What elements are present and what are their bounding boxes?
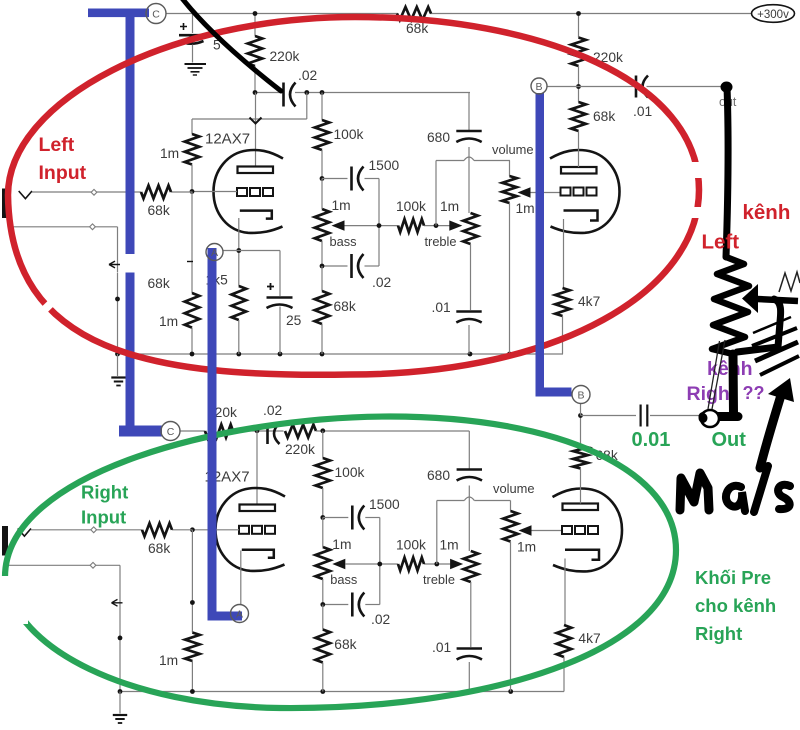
whiteout red dash gap 1 — [684, 162, 710, 178]
resistor 4k7 (cathode V2b) — [557, 559, 601, 692]
svg-text:12AX7: 12AX7 — [205, 131, 250, 148]
node junction gnd a — [190, 352, 195, 357]
triode V1b cathode — [564, 211, 598, 221]
resistor 1m (upper, V1a grid-plate) — [160, 119, 199, 192]
wire +300v supply rail (left channel) — [166, 13, 752, 15]
potentiometer treble 1m right — [464, 551, 479, 647]
capacitor 680 (bright right) — [427, 431, 482, 551]
node junction gnd e — [468, 352, 473, 357]
svg-text:bass: bass — [330, 234, 357, 249]
svg-text:Khối Pre: Khối Pre — [695, 567, 771, 588]
wire cathode row to cap 25 — [223, 250, 280, 252]
svg-text:220k: 220k — [285, 442, 315, 457]
triode V2a cathode — [242, 550, 274, 558]
marker hatch strokes — [752, 317, 799, 375]
node junction (1500 tap) — [320, 176, 325, 181]
triode V2a grid — [239, 526, 275, 534]
wire hop row right — [437, 497, 511, 501]
capacitor .01 (right ch) — [432, 640, 482, 692]
triode V1b envelope — [550, 150, 620, 233]
svg-text:Input: Input — [81, 507, 126, 528]
svg-text:C: C — [152, 8, 160, 20]
whiteout red dash gap 2 — [688, 207, 712, 218]
node junction bass/.02 right — [320, 602, 325, 607]
marker wiper arrow — [742, 284, 798, 313]
svg-text:A: A — [211, 247, 218, 259]
label 12AX7 V1a — [205, 131, 250, 148]
resistor 4k7 (cathode V1b) — [555, 219, 600, 354]
wire grid lead V2a — [192, 529, 239, 531]
node A (left ch) — [206, 244, 223, 261]
svg-text:+300v: +300v — [757, 9, 789, 21]
node junction (grid V1a) — [190, 189, 195, 194]
wire hop row (treble top) — [436, 157, 510, 161]
wire shield drop x120 — [119, 565, 121, 691]
svg-text:bass: bass — [330, 572, 357, 587]
svg-text:??: ?? — [743, 383, 765, 403]
wire cathode lead V1a — [238, 218, 240, 286]
svg-text:treble: treble — [423, 572, 455, 587]
marker handwriting Mass — [680, 466, 790, 512]
capacitor .02 (bass cap right) — [323, 593, 390, 628]
svg-text:.02: .02 — [371, 612, 390, 627]
ground (filter cap) — [185, 64, 207, 75]
wire B2 drop — [580, 404, 582, 416]
jack Right input tip contact — [18, 529, 31, 537]
svg-text:1m: 1m — [440, 199, 459, 214]
svg-text:68k: 68k — [148, 276, 170, 291]
svg-text:cho kênh: cho kênh — [695, 595, 776, 616]
capacitor .01 (output, left ch) — [633, 76, 652, 120]
pen wiper lines — [708, 340, 725, 409]
svg-text:1m: 1m — [516, 201, 535, 216]
wire plate row right — [316, 430, 469, 432]
wire wiper row — [345, 225, 450, 227]
capacitor .02 (coupling V1a) — [284, 68, 318, 107]
svg-text:1m: 1m — [160, 146, 179, 161]
label treble — [425, 234, 457, 249]
whiteout red slash bottom-left — [42, 285, 70, 312]
resistor 68k (V2b plate stopper) — [573, 416, 618, 504]
capacitor .01 (left ch) — [432, 300, 482, 354]
label 68k (erased resistor) — [148, 276, 170, 291]
resistor 100k (mid) — [396, 199, 426, 232]
resistor 220k (plate load V1b) — [571, 14, 623, 87]
svg-text:100k: 100k — [396, 538, 426, 553]
svg-text:C: C — [167, 426, 175, 438]
marker pot right bracket — [703, 354, 738, 417]
wire gnd stub right ch — [119, 692, 121, 714]
wire 1500 drop right — [379, 518, 381, 605]
node junction gnd left end right ch — [118, 689, 123, 694]
svg-text:680: 680 — [427, 130, 450, 145]
triode V1a plate — [238, 167, 274, 174]
text 0.01 (green) — [632, 429, 671, 451]
svg-text:volume: volume — [493, 481, 535, 496]
node junction (rail/220k) — [253, 11, 258, 16]
whiteout right ch labels — [136, 591, 181, 623]
ground (left channel) — [111, 378, 125, 386]
svg-text:kênh: kênh — [743, 201, 791, 224]
node junction wiper/treble-link — [434, 223, 439, 228]
svg-text:B: B — [577, 389, 584, 401]
svg-text:68k: 68k — [148, 541, 170, 556]
wire plate row V1a — [255, 92, 470, 94]
resistor 68k (grid stopper, left) — [141, 186, 171, 219]
label 1m treble — [440, 199, 459, 214]
node junction gnd b — [236, 352, 241, 357]
svg-text:1500: 1500 — [369, 158, 400, 173]
capacitor 680 (bright) — [427, 93, 482, 214]
node junction x117 — [115, 297, 120, 302]
triode V1a cathode — [240, 211, 272, 219]
node C (left ch) — [146, 4, 166, 24]
node junction rail/220k V1b — [576, 11, 581, 16]
svg-text:25: 25 — [286, 313, 302, 328]
triode V1b grid — [561, 188, 597, 196]
wire input row 2 (right ch) — [8, 556, 120, 566]
node junction wiper/1500 — [377, 223, 382, 228]
capacitor .02 (bass cap) — [322, 254, 391, 290]
capacitor .01 (output right) — [641, 405, 648, 427]
node junction B2 row — [578, 413, 583, 418]
connector diamond input 2 — [90, 224, 96, 230]
wire cathode lead V2a to node A — [240, 551, 242, 605]
triode V1b plate — [561, 167, 597, 174]
text kenh Right ?? (purple) — [687, 358, 765, 405]
node junction tone top right — [320, 428, 325, 433]
node A (right ch) — [231, 605, 249, 623]
svg-text:Input: Input — [39, 162, 87, 184]
power +300v — [752, 5, 795, 23]
wire ground bus (left ch) — [118, 353, 564, 355]
label out (left ch) — [719, 95, 737, 109]
wire volume wiper to grid V1b — [531, 192, 561, 194]
triode V2b grid — [562, 526, 598, 534]
node junction gnd r2 — [320, 689, 325, 694]
triode V2a plate — [240, 505, 276, 512]
svg-text:100k: 100k — [335, 465, 365, 480]
triode V2b plate — [563, 504, 599, 511]
svg-text:B: B — [535, 81, 542, 93]
wire B2 out row — [581, 415, 702, 417]
wire gnd stub (left ch) — [117, 354, 119, 376]
node junction gnd r4 — [508, 689, 513, 694]
svg-text:1m: 1m — [440, 538, 459, 553]
wire remnant x117 redraw — [109, 254, 193, 272]
node junction (.02 out) — [304, 90, 309, 95]
text Out (green) — [712, 429, 747, 451]
resistor 100k (slope, left ch) — [315, 93, 364, 179]
text kenh Left (red) — [702, 201, 791, 254]
marker wiper circle — [699, 410, 720, 427]
node junction gnd c — [278, 352, 283, 357]
node junction gnd f — [507, 352, 512, 357]
svg-text:Righ: Righ — [687, 383, 730, 405]
resistor 220k R_plate V1a — [248, 14, 300, 93]
connector diamond input 1 — [91, 189, 97, 195]
jack Left input tip contact — [19, 191, 32, 199]
node junction gnd d — [320, 352, 325, 357]
svg-text:68k: 68k — [334, 637, 356, 652]
node junction wiper/1500 right — [377, 562, 382, 567]
wiper arrow treble right — [450, 559, 463, 569]
whiteout erased wire (left ch) — [84, 254, 164, 273]
svg-text:.02: .02 — [298, 68, 317, 83]
connector diamond input 1 right — [91, 527, 97, 533]
wire 1m feedback link — [192, 93, 307, 120]
text Khoi Pre cho kenh Right (green) — [695, 567, 776, 644]
svg-text:Right: Right — [81, 482, 128, 503]
resistor 68k (tone stack lower) — [315, 266, 356, 354]
svg-text:68k: 68k — [148, 203, 170, 218]
marker line out drop — [726, 87, 728, 257]
wiper arrow volume — [518, 187, 531, 197]
resistor grid leak 1m (right) — [159, 530, 200, 692]
connector diamond input 2 right — [90, 562, 96, 568]
wiper arrow volume right — [519, 525, 532, 535]
wire remnant x120 redraw (right) — [112, 599, 123, 606]
svg-text:.01: .01 — [633, 104, 652, 119]
node junction gnd r1 — [190, 689, 195, 694]
pen squiggle W — [779, 272, 800, 292]
svg-text:68k: 68k — [334, 299, 356, 314]
node C (right ch) — [161, 422, 180, 441]
wire B row — [547, 86, 723, 88]
node B (left ch) — [531, 78, 547, 94]
svg-text:1m: 1m — [159, 653, 178, 668]
node junction x120 — [118, 636, 123, 641]
jack Right input sleeve — [2, 526, 8, 556]
capacitor 1500 (treble cap right) — [323, 497, 400, 530]
node junction (cathode row) — [236, 248, 241, 253]
triode V2b envelope — [553, 488, 623, 571]
node junction bass/.02 — [320, 264, 325, 269]
label 1m (grid leak left) — [159, 314, 178, 329]
wiper arrow bass — [332, 220, 345, 230]
triode V1a grid — [237, 188, 273, 196]
node junction (tone stack top) — [320, 90, 325, 95]
wire input row (left ch) — [32, 191, 192, 193]
jack Left input sleeve — [2, 189, 8, 219]
node B (right ch) — [572, 386, 590, 404]
svg-text:100k: 100k — [334, 127, 364, 142]
svg-text:1500: 1500 — [369, 497, 400, 512]
wire wiper row right — [345, 563, 450, 565]
wire plate lead V1a — [255, 93, 257, 167]
svg-text:1m: 1m — [332, 198, 351, 213]
wire ground bus (right ch) — [120, 691, 564, 693]
svg-text:1m: 1m — [159, 314, 178, 329]
capacitor 25 (cathode bypass) — [267, 251, 302, 355]
svg-text:treble: treble — [425, 234, 457, 249]
node junction plate right ch — [255, 428, 260, 433]
svg-text:Left: Left — [39, 134, 75, 156]
wire treble link vertical right — [436, 501, 438, 565]
marker big arrow to out — [760, 378, 794, 468]
wire plate lead V2a — [256, 431, 258, 505]
text Right Input (green) — [81, 482, 128, 528]
marker potentiometer zigzag — [712, 257, 749, 354]
wire grid lead V1a — [192, 191, 237, 193]
potentiometer volume 1m (left) — [492, 142, 535, 354]
svg-text:1m: 1m — [517, 540, 536, 555]
capacitor .02 (coupling right) — [263, 403, 282, 444]
svg-text:4k7: 4k7 — [578, 631, 600, 646]
node junction grid V2a — [190, 527, 195, 532]
svg-text:.02: .02 — [263, 403, 282, 418]
node junction 1500 tap right — [320, 515, 325, 520]
svg-text:Left: Left — [702, 231, 740, 254]
svg-text:220k: 220k — [270, 49, 300, 64]
annotation green ellipse (right channel) — [5, 417, 676, 709]
svg-text:68k: 68k — [593, 109, 615, 124]
wire volume wiper to grid V2b — [532, 530, 563, 532]
node junction erased row right — [190, 600, 195, 605]
node junction gnd left end — [115, 352, 120, 357]
capacitor 1500 (treble cap) — [322, 158, 400, 191]
resistor 68k (supply dropper, top rail) — [397, 7, 431, 36]
svg-text:100k: 100k — [396, 199, 426, 214]
resistor 1k5 (cathode V1a) — [206, 273, 247, 355]
wire 220k to .02 — [233, 430, 284, 432]
svg-text:680: 680 — [427, 468, 450, 483]
resistor 100k (mid right) — [396, 538, 426, 571]
svg-text:Right: Right — [695, 623, 742, 644]
potentiometer treble 1m — [463, 213, 478, 310]
svg-text:.01: .01 — [432, 640, 451, 655]
wire shield drop x117 — [117, 227, 119, 354]
potentiometer bass 1m right — [316, 518, 358, 605]
resistor 68k (V1b plate stopper) — [571, 87, 615, 168]
resistor 220k (first, right ch) — [205, 405, 237, 438]
ground (right channel) — [113, 715, 127, 723]
svg-text:A: A — [236, 608, 243, 620]
text Left Input (red) — [39, 134, 87, 184]
capacitor 5 (filter, electrolytic) — [179, 14, 221, 63]
node junction wiper/treble right — [434, 562, 439, 567]
svg-text:1m: 1m — [332, 537, 351, 552]
svg-text:4k7: 4k7 — [578, 294, 600, 309]
resistor 68k (grid stopper right) — [142, 523, 172, 556]
wire blue link C (left) — [88, 9, 162, 437]
wire input row 2 (left ch) — [8, 218, 118, 227]
svg-text:.02: .02 — [372, 275, 391, 290]
potentiometer bass 1m — [315, 179, 357, 267]
svg-text:volume: volume — [492, 142, 534, 157]
triode V2b cathode — [565, 550, 599, 560]
resistor 68k (tone lower right) — [316, 605, 357, 692]
node junction B row — [576, 84, 581, 89]
annotation red ellipse (left channel) — [8, 17, 699, 375]
svg-text:Out: Out — [712, 429, 747, 451]
marker blob at out (left) — [721, 82, 733, 93]
wiper arrow bass right — [332, 559, 345, 569]
node junction (plate/cap .02) — [253, 90, 258, 95]
wire blue link B — [536, 93, 572, 397]
marker arrow to .02 cap — [181, 0, 281, 91]
label 12AX7 V2a — [205, 469, 250, 486]
resistor 220k (second, right ch) — [285, 425, 316, 458]
label treble right — [423, 572, 455, 587]
wiper arrow treble — [449, 220, 462, 230]
wire blue link A — [208, 248, 243, 621]
resistor 100k (slope right) — [316, 431, 365, 518]
label 1m treble right — [440, 538, 459, 553]
wire treble link vertical — [435, 161, 437, 226]
wire 1500 drop — [378, 179, 380, 267]
resistor grid leak 1m (left) — [185, 192, 200, 355]
triode V1a envelope — [214, 150, 284, 233]
triode V2a envelope — [216, 488, 286, 571]
node C2 wire — [180, 430, 205, 432]
svg-text:0.01: 0.01 — [632, 429, 671, 451]
wire arrow into plate V1a — [250, 118, 262, 124]
wire input row (right ch) — [31, 529, 192, 531]
potentiometer volume 1m right — [493, 481, 536, 692]
whiteout green gap left — [0, 576, 28, 624]
svg-text:.01: .01 — [432, 300, 451, 315]
marker arrow bend to bracket — [737, 299, 781, 352]
node junction gnd r3 — [468, 689, 473, 694]
